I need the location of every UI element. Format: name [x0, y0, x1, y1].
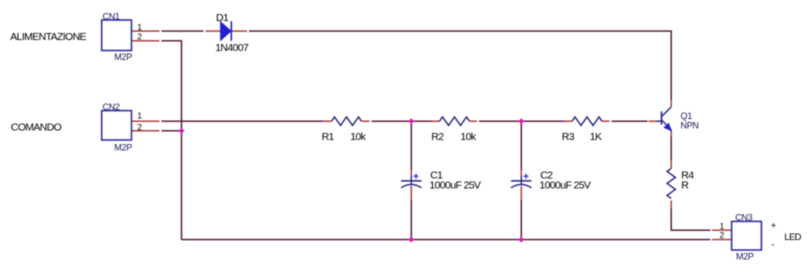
svg-text:2: 2: [137, 122, 142, 132]
svg-text:ALIMENTAZIONE: ALIMENTAZIONE: [10, 31, 86, 43]
svg-text:NPN: NPN: [681, 121, 699, 131]
svg-text:CN2: CN2: [103, 102, 120, 112]
svg-text:LED: LED: [784, 232, 801, 243]
svg-text:2: 2: [137, 32, 142, 42]
svg-text:1K: 1K: [590, 131, 602, 143]
svg-text:Q1: Q1: [681, 111, 693, 121]
svg-text:R: R: [681, 179, 689, 191]
svg-text:1000uF 25V: 1000uF 25V: [429, 179, 481, 191]
svg-text:CN1: CN1: [103, 11, 120, 21]
svg-text:COMANDO: COMANDO: [11, 122, 62, 134]
svg-text:R3: R3: [562, 131, 575, 143]
svg-text:M2P: M2P: [736, 252, 754, 262]
svg-text:1000uF 25V: 1000uF 25V: [539, 179, 591, 191]
svg-text:10k: 10k: [460, 131, 476, 143]
svg-text:R2: R2: [431, 131, 444, 143]
svg-text:M2P: M2P: [114, 52, 132, 62]
svg-text:1: 1: [137, 111, 142, 121]
svg-text:CN3: CN3: [735, 212, 752, 222]
svg-text:R1: R1: [322, 131, 335, 143]
svg-text:10k: 10k: [350, 131, 366, 143]
svg-text:2: 2: [720, 230, 725, 240]
svg-text:M2P: M2P: [114, 143, 132, 153]
svg-text:1: 1: [137, 22, 142, 32]
svg-text:1N4007: 1N4007: [215, 42, 249, 54]
svg-text:-: -: [771, 240, 774, 251]
svg-text:D1: D1: [216, 12, 229, 24]
svg-text:+: +: [771, 220, 777, 231]
